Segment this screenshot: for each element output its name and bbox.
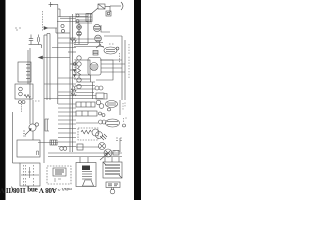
svg-text:enihiA ·ºⁿ A08 V ənq 1108(II V: enihiA ·ºⁿ A08 V ənq 1108(II V: [0, 186, 72, 194]
